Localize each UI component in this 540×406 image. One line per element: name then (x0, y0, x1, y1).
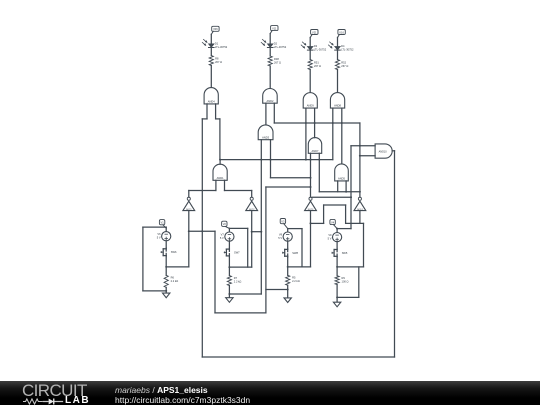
svg-text:R7: R7 (234, 276, 238, 280)
svg-text:5 V: 5 V (278, 236, 282, 240)
svg-text:R9: R9 (342, 276, 346, 280)
svg-text:267 Ω: 267 Ω (341, 64, 348, 68)
svg-text:LTL-30752: LTL-30752 (341, 48, 354, 52)
svg-text:AND3: AND3 (262, 135, 269, 139)
svg-text:V9: V9 (328, 233, 332, 237)
svg-text:100 Ω: 100 Ω (342, 280, 349, 284)
svg-text:V21: V21 (312, 30, 317, 34)
svg-text:AND5: AND5 (338, 177, 345, 181)
svg-text:V6: V6 (157, 232, 161, 236)
svg-text:R38: R38 (274, 57, 279, 61)
svg-text:LTL-30752: LTL-30752 (314, 48, 327, 52)
svg-text:AND1: AND1 (217, 176, 224, 180)
svg-text:AND10: AND10 (379, 150, 388, 153)
svg-text:V1: V1 (161, 221, 165, 225)
svg-text:SW5: SW5 (342, 251, 348, 255)
svg-text:R6: R6 (171, 276, 175, 280)
svg-text:V4: V4 (331, 220, 335, 224)
svg-text:5 V: 5 V (220, 236, 224, 240)
svg-text:SW7: SW7 (234, 251, 240, 255)
svg-text:NOT2: NOT2 (249, 209, 255, 211)
svg-text:267 Ω: 267 Ω (314, 64, 321, 68)
svg-text:V2: V2 (223, 222, 227, 226)
svg-text:V11: V11 (272, 27, 277, 31)
svg-text:AND7: AND7 (312, 149, 319, 153)
svg-text:5 V: 5 V (157, 236, 161, 240)
svg-text:AND2: AND2 (266, 99, 273, 103)
svg-text:267 Ω: 267 Ω (274, 61, 281, 65)
svg-text:AND8: AND8 (334, 104, 341, 108)
svg-text:V16: V16 (339, 30, 344, 34)
svg-text:NOT1: NOT1 (186, 209, 192, 211)
svg-text:V3: V3 (281, 220, 285, 224)
svg-text:LTL-30752: LTL-30752 (274, 45, 287, 49)
svg-text:R5: R5 (292, 276, 296, 280)
svg-text:R8: R8 (215, 57, 219, 61)
svg-text:SW8: SW8 (292, 251, 298, 255)
svg-text:V06: V06 (213, 27, 218, 31)
svg-text:2.2 kΩ: 2.2 kΩ (234, 279, 242, 283)
svg-text:V7: V7 (221, 233, 225, 237)
svg-text:AND4: AND4 (208, 100, 215, 104)
svg-text:R51: R51 (314, 61, 319, 65)
svg-text:LTL-30752: LTL-30752 (215, 45, 228, 49)
svg-text:NOT4: NOT4 (357, 209, 363, 211)
svg-text:V8: V8 (279, 233, 283, 237)
svg-text:2.2 kΩ: 2.2 kΩ (292, 279, 300, 283)
svg-text:267 Ω: 267 Ω (215, 60, 222, 64)
svg-text:2.2 kΩ: 2.2 kΩ (171, 279, 179, 283)
svg-text:5 V: 5 V (328, 237, 332, 241)
svg-text:R52: R52 (341, 61, 346, 65)
svg-text:SW6: SW6 (171, 250, 177, 254)
svg-text:NOT3: NOT3 (308, 209, 314, 211)
svg-text:AND9: AND9 (307, 104, 314, 108)
